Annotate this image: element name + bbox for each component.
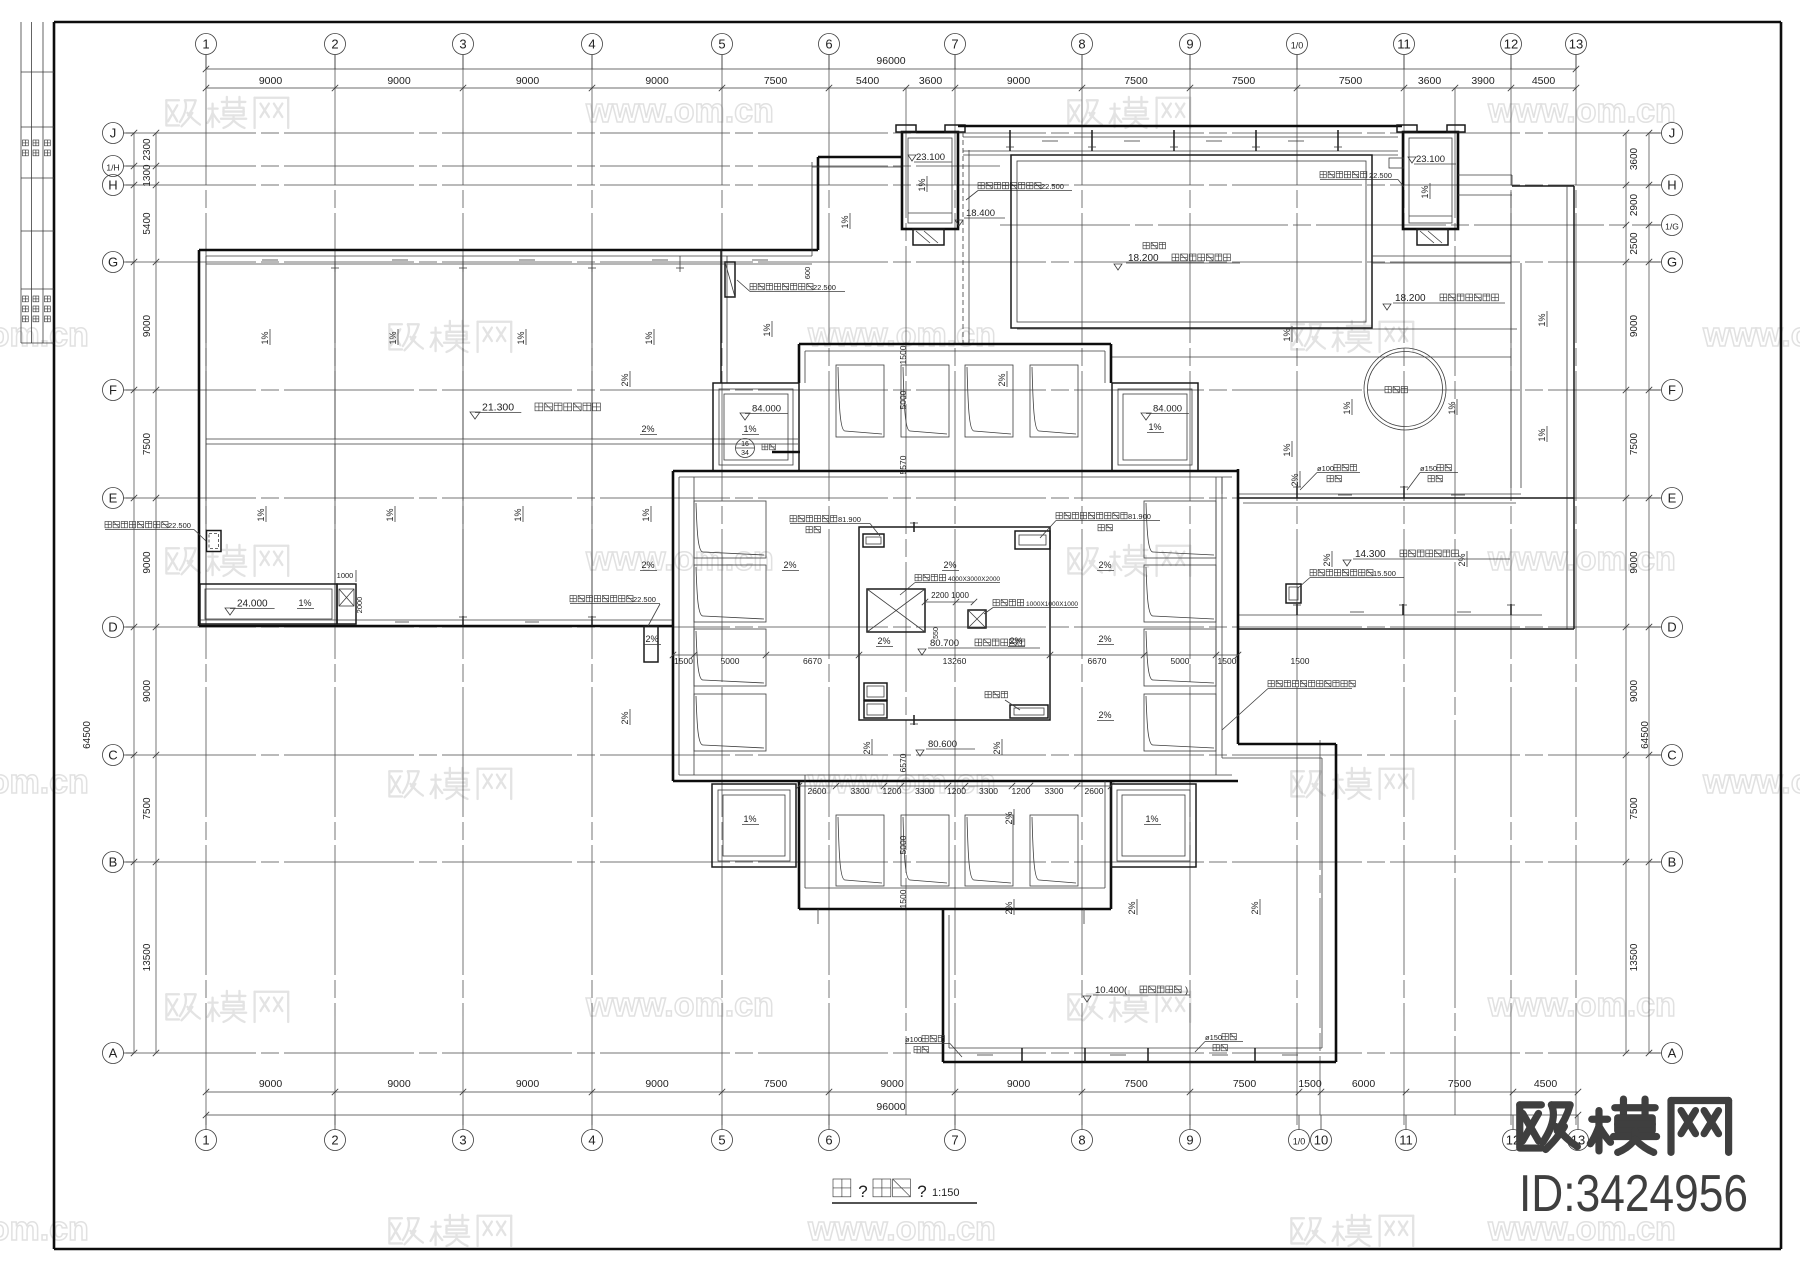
svg-text:22.500: 22.500 bbox=[168, 521, 191, 530]
stair boxes court bbox=[864, 683, 887, 718]
elevation 18.400 bbox=[955, 208, 1005, 226]
svg-text:22.500: 22.500 bbox=[1041, 182, 1064, 191]
svg-text:7500: 7500 bbox=[1629, 797, 1640, 820]
svg-text:15.500: 15.500 bbox=[1373, 569, 1396, 578]
rain pipe labels E band bbox=[1300, 464, 1458, 490]
svg-text:B: B bbox=[1668, 855, 1677, 870]
svg-text:1%: 1% bbox=[1537, 428, 1547, 441]
svg-text:1%: 1% bbox=[1145, 814, 1158, 824]
elevation 14.300 bbox=[1322, 549, 1510, 567]
svg-text:5400: 5400 bbox=[142, 212, 153, 235]
elevator box SW 1% bbox=[712, 784, 796, 867]
svg-text:3300: 3300 bbox=[915, 786, 934, 796]
svg-text:2%: 2% bbox=[862, 741, 872, 754]
svg-text:1500: 1500 bbox=[1298, 1078, 1322, 1090]
svg-text:1%: 1% bbox=[641, 508, 651, 521]
core mid dimension row bbox=[670, 652, 1241, 666]
svg-text:9000: 9000 bbox=[1629, 314, 1640, 337]
elevation 80.700 bbox=[918, 638, 1040, 655]
svg-text:1%: 1% bbox=[917, 178, 927, 191]
hatched box below MR left bbox=[913, 229, 944, 245]
core top skylight row bbox=[836, 365, 1078, 437]
svg-text:1: 1 bbox=[202, 1133, 209, 1148]
svg-text:2%: 2% bbox=[1457, 553, 1467, 566]
svg-text:2%: 2% bbox=[641, 560, 654, 570]
svg-text:7500: 7500 bbox=[1629, 432, 1640, 455]
pool label 18.200 bbox=[1114, 243, 1240, 271]
svg-text:2%: 2% bbox=[1098, 710, 1111, 720]
svg-text:2%: 2% bbox=[1004, 811, 1014, 824]
svg-text:9: 9 bbox=[1186, 37, 1193, 52]
elevation 18.200 right bbox=[1383, 293, 1505, 310]
svg-text:1%: 1% bbox=[1447, 401, 1457, 414]
svg-text:13500: 13500 bbox=[1629, 943, 1640, 971]
svg-text:5570: 5570 bbox=[898, 455, 908, 474]
svg-text:80.700: 80.700 bbox=[930, 638, 959, 649]
svg-text:1200: 1200 bbox=[947, 786, 966, 796]
svg-text:A: A bbox=[109, 1046, 118, 1061]
svg-text:1200: 1200 bbox=[883, 786, 902, 796]
svg-text:9000: 9000 bbox=[516, 75, 540, 87]
svg-text:D: D bbox=[1667, 620, 1676, 635]
svg-text:1500: 1500 bbox=[1291, 656, 1310, 666]
horizontal grid lines bbox=[126, 133, 1660, 1053]
svg-text:14.300: 14.300 bbox=[1355, 549, 1386, 560]
bottom dimension rows bbox=[203, 1078, 1581, 1118]
core slope labels bbox=[620, 371, 1114, 755]
svg-text:2%: 2% bbox=[645, 634, 658, 644]
svg-text:1%: 1% bbox=[298, 598, 311, 608]
smoke shaft 15.500 bbox=[1286, 569, 1404, 603]
svg-text:7500: 7500 bbox=[1124, 1078, 1148, 1090]
roof drain ticks G band bbox=[262, 256, 768, 272]
axis bubbles right bbox=[1650, 123, 1683, 1064]
shaft box 1000 bbox=[335, 570, 364, 624]
svg-text:18.400: 18.400 bbox=[966, 208, 995, 219]
svg-text:www.om.cn: www.om.cn bbox=[585, 986, 774, 1024]
svg-text:2%: 2% bbox=[1098, 634, 1111, 644]
svg-text:E: E bbox=[1668, 491, 1677, 506]
right dimension chain bbox=[1623, 130, 1652, 1056]
svg-text:18.200: 18.200 bbox=[1395, 293, 1426, 304]
svg-text:64500: 64500 bbox=[82, 721, 93, 749]
core wide outline bbox=[673, 469, 1238, 781]
svg-text:600: 600 bbox=[803, 267, 812, 280]
svg-text:4: 4 bbox=[588, 1133, 595, 1148]
smoke label top center bbox=[966, 182, 1072, 200]
smoke shaft left edge bbox=[105, 521, 221, 552]
svg-text:5000: 5000 bbox=[721, 656, 740, 666]
svg-text:13500: 13500 bbox=[142, 943, 153, 971]
elevation 80.600 bbox=[916, 739, 975, 756]
svg-text:1%: 1% bbox=[743, 814, 756, 824]
svg-text:24.000: 24.000 bbox=[237, 599, 268, 610]
svg-text:7500: 7500 bbox=[1232, 75, 1256, 87]
svg-text:1500: 1500 bbox=[898, 889, 908, 908]
svg-text:1300: 1300 bbox=[142, 164, 153, 187]
slope labels lower building bbox=[1004, 471, 1300, 915]
svg-text:4000X3000X2000: 4000X3000X2000 bbox=[948, 576, 1000, 583]
svg-text:9000: 9000 bbox=[880, 1078, 904, 1090]
svg-text:2%: 2% bbox=[997, 373, 1007, 386]
svg-text:2600: 2600 bbox=[808, 786, 827, 796]
svg-text:E: E bbox=[109, 491, 118, 506]
svg-text:9000: 9000 bbox=[142, 551, 153, 574]
svg-text:16: 16 bbox=[741, 441, 749, 448]
svg-text:5400: 5400 bbox=[856, 75, 880, 87]
svg-text:C: C bbox=[1667, 748, 1676, 763]
svg-text:1%: 1% bbox=[840, 215, 850, 228]
core vertical dims bbox=[898, 345, 908, 908]
right region west edge bbox=[1222, 192, 1521, 498]
svg-text:1%: 1% bbox=[1282, 328, 1292, 341]
top parapet band bbox=[958, 126, 1402, 155]
svg-text:?: ? bbox=[917, 1182, 926, 1201]
elevator box 84.000 NW bbox=[713, 383, 800, 471]
elevation 24.000 box bbox=[200, 584, 337, 624]
svg-text:13: 13 bbox=[1569, 37, 1583, 52]
svg-text:13260: 13260 bbox=[943, 656, 967, 666]
svg-text:G: G bbox=[108, 255, 118, 270]
svg-text:23.100: 23.100 bbox=[1416, 154, 1445, 165]
svg-text:80.600: 80.600 bbox=[928, 739, 957, 750]
svg-text:1%: 1% bbox=[256, 508, 266, 521]
svg-text:A: A bbox=[1668, 1046, 1677, 1061]
svg-text:www.om.cn: www.om.cn bbox=[0, 1210, 89, 1248]
svg-text:9000: 9000 bbox=[645, 75, 669, 87]
svg-text:2%: 2% bbox=[1098, 560, 1111, 570]
E row band right bbox=[1237, 486, 1574, 503]
rain pipe label bottom bbox=[905, 1033, 1243, 1057]
watermark logo bottom right bbox=[1519, 1099, 1748, 1223]
svg-text:10.400(: 10.400( bbox=[1095, 985, 1128, 996]
svg-text:1%: 1% bbox=[516, 331, 526, 344]
svg-text:www.om.cn: www.om.cn bbox=[1487, 92, 1676, 130]
svg-text:84.000: 84.000 bbox=[752, 404, 781, 415]
svg-text:2%: 2% bbox=[620, 711, 630, 724]
svg-text:3: 3 bbox=[459, 1133, 466, 1148]
svg-text:1%: 1% bbox=[762, 323, 772, 336]
svg-text:1%: 1% bbox=[1148, 422, 1161, 432]
svg-text:7500: 7500 bbox=[1448, 1078, 1472, 1090]
fire water tank bbox=[867, 575, 1000, 633]
svg-text:1500: 1500 bbox=[1218, 656, 1237, 666]
svg-text:9000: 9000 bbox=[1007, 75, 1031, 87]
svg-text:1000: 1000 bbox=[337, 571, 354, 580]
svg-text:3: 3 bbox=[459, 37, 466, 52]
svg-text:2900: 2900 bbox=[1629, 193, 1640, 216]
svg-text:81.900: 81.900 bbox=[838, 515, 861, 524]
svg-text:22.500: 22.500 bbox=[813, 283, 836, 292]
central court bbox=[859, 522, 1050, 725]
axis bubbles top bbox=[196, 34, 1587, 70]
svg-text:81.900: 81.900 bbox=[1128, 512, 1151, 521]
svg-text:22.500: 22.500 bbox=[633, 595, 656, 604]
core top arm bbox=[799, 344, 1111, 383]
svg-text:4500: 4500 bbox=[1534, 1078, 1558, 1090]
svg-text:1%: 1% bbox=[388, 331, 398, 344]
svg-text:6670: 6670 bbox=[803, 656, 822, 666]
vertical grid lines bbox=[206, 55, 1576, 1125]
svg-text:ø150: ø150 bbox=[1420, 464, 1437, 473]
svg-text:6570: 6570 bbox=[898, 753, 908, 772]
svg-text:6670: 6670 bbox=[1088, 656, 1107, 666]
svg-text:2%: 2% bbox=[1009, 636, 1022, 646]
smoke label right MR bbox=[1320, 158, 1404, 187]
svg-text:9000: 9000 bbox=[387, 1078, 411, 1090]
svg-text:1%: 1% bbox=[1537, 313, 1547, 326]
svg-text:9000: 9000 bbox=[1629, 679, 1640, 702]
svg-text:3300: 3300 bbox=[979, 786, 998, 796]
svg-text:5: 5 bbox=[718, 37, 725, 52]
svg-text:6: 6 bbox=[825, 37, 832, 52]
svg-text:2%: 2% bbox=[877, 636, 890, 646]
svg-text:9000: 9000 bbox=[645, 1078, 669, 1090]
svg-text:1%: 1% bbox=[1342, 401, 1352, 414]
svg-text:7500: 7500 bbox=[764, 1078, 788, 1090]
svg-text:5: 5 bbox=[718, 1133, 725, 1148]
svg-text:C: C bbox=[108, 748, 117, 763]
left dimension chain bbox=[82, 130, 159, 1056]
svg-text:2600: 2600 bbox=[1085, 786, 1104, 796]
svg-text:www.om.cn: www.om.cn bbox=[1487, 540, 1676, 578]
hatched box below MR right bbox=[1417, 229, 1448, 245]
svg-text:1200: 1200 bbox=[1012, 786, 1031, 796]
svg-text:18.200: 18.200 bbox=[1128, 253, 1159, 264]
svg-text:1/0: 1/0 bbox=[1291, 41, 1304, 51]
pool area outline bbox=[963, 132, 1372, 344]
svg-text:8: 8 bbox=[1078, 37, 1085, 52]
svg-text:9000: 9000 bbox=[1007, 1078, 1031, 1090]
svg-text:H: H bbox=[108, 178, 117, 193]
svg-text:): ) bbox=[1185, 985, 1188, 996]
svg-text:1/G: 1/G bbox=[1665, 222, 1679, 232]
svg-text:1: 1 bbox=[202, 37, 209, 52]
svg-text:ø100: ø100 bbox=[1317, 464, 1334, 473]
svg-text:7500: 7500 bbox=[1233, 1078, 1257, 1090]
elevator box SE 1% bbox=[1111, 784, 1196, 867]
left building outline bbox=[199, 157, 902, 626]
core bottom skylight row bbox=[836, 815, 1078, 886]
light steel frame label bbox=[1222, 681, 1355, 731]
svg-text:9000: 9000 bbox=[142, 679, 153, 702]
svg-text:D: D bbox=[108, 620, 117, 635]
svg-text:www.om.cn: www.om.cn bbox=[0, 763, 89, 801]
svg-text:4500: 4500 bbox=[1532, 75, 1556, 87]
svg-text:H: H bbox=[1667, 178, 1676, 193]
svg-text:3300: 3300 bbox=[851, 786, 870, 796]
svg-text:9000: 9000 bbox=[387, 75, 411, 87]
svg-text:64500: 64500 bbox=[1640, 721, 1651, 749]
svg-text:1/0: 1/0 bbox=[1293, 1137, 1306, 1147]
svg-text:2500: 2500 bbox=[1629, 232, 1640, 255]
svg-text:5000: 5000 bbox=[898, 835, 908, 854]
svg-text:23.100: 23.100 bbox=[916, 152, 945, 163]
svg-text:9000: 9000 bbox=[516, 1078, 540, 1090]
svg-text:7500: 7500 bbox=[142, 432, 153, 455]
core left skylight column bbox=[694, 477, 766, 775]
svg-text:6000: 6000 bbox=[1352, 1078, 1376, 1090]
svg-text:1%: 1% bbox=[513, 508, 523, 521]
svg-text:G: G bbox=[1667, 255, 1677, 270]
svg-text:34: 34 bbox=[741, 450, 749, 457]
svg-text:1:150: 1:150 bbox=[932, 1187, 960, 1199]
court labels 81.900 bbox=[790, 512, 1160, 538]
svg-text:2: 2 bbox=[331, 1133, 338, 1148]
svg-text:7: 7 bbox=[951, 37, 958, 52]
svg-text:9000: 9000 bbox=[142, 314, 153, 337]
svg-text:2%: 2% bbox=[1322, 553, 1332, 566]
svg-text:J: J bbox=[1669, 126, 1676, 141]
svg-text:?: ? bbox=[858, 1182, 867, 1201]
svg-text:2%: 2% bbox=[943, 560, 956, 570]
top dimension row bbox=[203, 55, 1579, 91]
svg-text:7500: 7500 bbox=[764, 75, 788, 87]
svg-text:9000: 9000 bbox=[259, 75, 283, 87]
svg-text:7: 7 bbox=[951, 1133, 958, 1148]
svg-text:7500: 7500 bbox=[1339, 75, 1363, 87]
svg-text:2%: 2% bbox=[641, 424, 654, 434]
svg-text:ø150: ø150 bbox=[1205, 1033, 1222, 1042]
svg-text:1%: 1% bbox=[1282, 443, 1292, 456]
svg-text:3600: 3600 bbox=[1629, 147, 1640, 170]
svg-text:1%: 1% bbox=[260, 331, 270, 344]
svg-text:21.300: 21.300 bbox=[482, 402, 514, 414]
svg-text:ø100: ø100 bbox=[905, 1035, 922, 1044]
svg-text:3300: 3300 bbox=[1045, 786, 1064, 796]
pool circle 戏水池 bbox=[1364, 348, 1446, 430]
svg-text:F: F bbox=[109, 383, 117, 398]
lower right building outline bbox=[943, 744, 1336, 1062]
core bottom dimension row bbox=[796, 783, 1114, 796]
svg-text:www.om.cn: www.om.cn bbox=[1702, 763, 1800, 801]
smoke shaft label G band bbox=[725, 262, 845, 297]
drawing title bbox=[832, 1179, 977, 1203]
svg-text:1%: 1% bbox=[385, 508, 395, 521]
dim 2600 bottom protrusion bbox=[1291, 656, 1310, 666]
svg-text:1500: 1500 bbox=[898, 345, 908, 364]
svg-text:9000: 9000 bbox=[1629, 551, 1640, 574]
svg-text:2300: 2300 bbox=[142, 138, 153, 161]
machine room right 23.100 bbox=[1397, 125, 1465, 229]
svg-text:1000X1000X1000: 1000X1000X1000 bbox=[1026, 601, 1078, 608]
svg-text:2000: 2000 bbox=[355, 597, 364, 614]
svg-text:1%: 1% bbox=[743, 424, 756, 434]
svg-text:96000: 96000 bbox=[876, 1101, 905, 1113]
core right skylight column bbox=[1144, 477, 1216, 775]
svg-text:2%: 2% bbox=[1127, 901, 1137, 914]
svg-text:2%: 2% bbox=[1290, 473, 1300, 486]
svg-text:1%: 1% bbox=[1420, 185, 1430, 198]
svg-text:11: 11 bbox=[1397, 37, 1411, 52]
svg-text:2: 2 bbox=[331, 37, 338, 52]
smoke shaft D row bbox=[570, 595, 660, 662]
svg-text:2%: 2% bbox=[1250, 901, 1260, 914]
pool south band lines bbox=[1017, 329, 1517, 357]
svg-text:5000: 5000 bbox=[1171, 656, 1190, 666]
svg-text:12: 12 bbox=[1504, 37, 1518, 52]
svg-text:B: B bbox=[109, 855, 118, 870]
machine room left 23.100 bbox=[896, 125, 965, 229]
svg-text:11: 11 bbox=[1399, 1133, 1413, 1148]
elevation 10.400 bbox=[1083, 985, 1190, 1002]
svg-text:ID:3424956: ID:3424956 bbox=[1519, 1165, 1748, 1223]
title strip bbox=[21, 22, 54, 343]
D row band right bbox=[1238, 604, 1574, 629]
svg-text:J: J bbox=[110, 126, 117, 141]
right building east edge bbox=[1458, 175, 1574, 629]
svg-text:96000: 96000 bbox=[876, 55, 905, 67]
svg-text:3600: 3600 bbox=[1418, 75, 1442, 87]
slope labels left building bbox=[256, 213, 850, 522]
elevation 21.300 bbox=[470, 402, 600, 420]
svg-text:2%: 2% bbox=[992, 741, 1002, 754]
svg-text:7500: 7500 bbox=[1124, 75, 1148, 87]
core bottom arm bbox=[799, 775, 1111, 924]
slope labels right region bbox=[1282, 311, 1547, 457]
svg-text:1%: 1% bbox=[644, 331, 654, 344]
svg-text:F: F bbox=[1668, 383, 1676, 398]
court smoke shafts bbox=[863, 531, 1050, 718]
svg-text:2200 1000: 2200 1000 bbox=[931, 591, 969, 600]
svg-text:2%: 2% bbox=[1004, 901, 1014, 914]
axis bubbles bottom bbox=[196, 1115, 1589, 1151]
axis bubbles left bbox=[103, 123, 135, 1064]
svg-text:www.om.cn: www.om.cn bbox=[807, 1210, 996, 1248]
left building roof lines bbox=[206, 264, 798, 620]
svg-text:5000: 5000 bbox=[898, 390, 908, 409]
svg-text:3600: 3600 bbox=[919, 75, 943, 87]
svg-text:6: 6 bbox=[825, 1133, 832, 1148]
svg-text:3900: 3900 bbox=[1471, 75, 1495, 87]
svg-text:8: 8 bbox=[1078, 1133, 1085, 1148]
svg-text:www.om.cn: www.om.cn bbox=[1702, 316, 1800, 354]
svg-text:9000: 9000 bbox=[259, 1078, 283, 1090]
svg-text:7500: 7500 bbox=[142, 797, 153, 820]
svg-text:1/H: 1/H bbox=[106, 163, 119, 173]
svg-text:2%: 2% bbox=[783, 560, 796, 570]
elevator box 84.000 NE bbox=[1112, 383, 1198, 471]
svg-text:84.000: 84.000 bbox=[1153, 404, 1182, 415]
svg-text:1500: 1500 bbox=[674, 656, 693, 666]
svg-text:www.om.cn: www.om.cn bbox=[585, 92, 774, 130]
expansion tank bbox=[922, 591, 1079, 639]
svg-text:www.om.cn: www.om.cn bbox=[585, 540, 774, 578]
svg-text:2%: 2% bbox=[620, 373, 630, 386]
svg-text:www.om.cn: www.om.cn bbox=[1487, 986, 1676, 1024]
lower building bottom band details bbox=[977, 1048, 1298, 1062]
svg-text:4: 4 bbox=[588, 37, 595, 52]
svg-text:10: 10 bbox=[1314, 1133, 1328, 1148]
svg-text:9: 9 bbox=[1186, 1133, 1193, 1148]
